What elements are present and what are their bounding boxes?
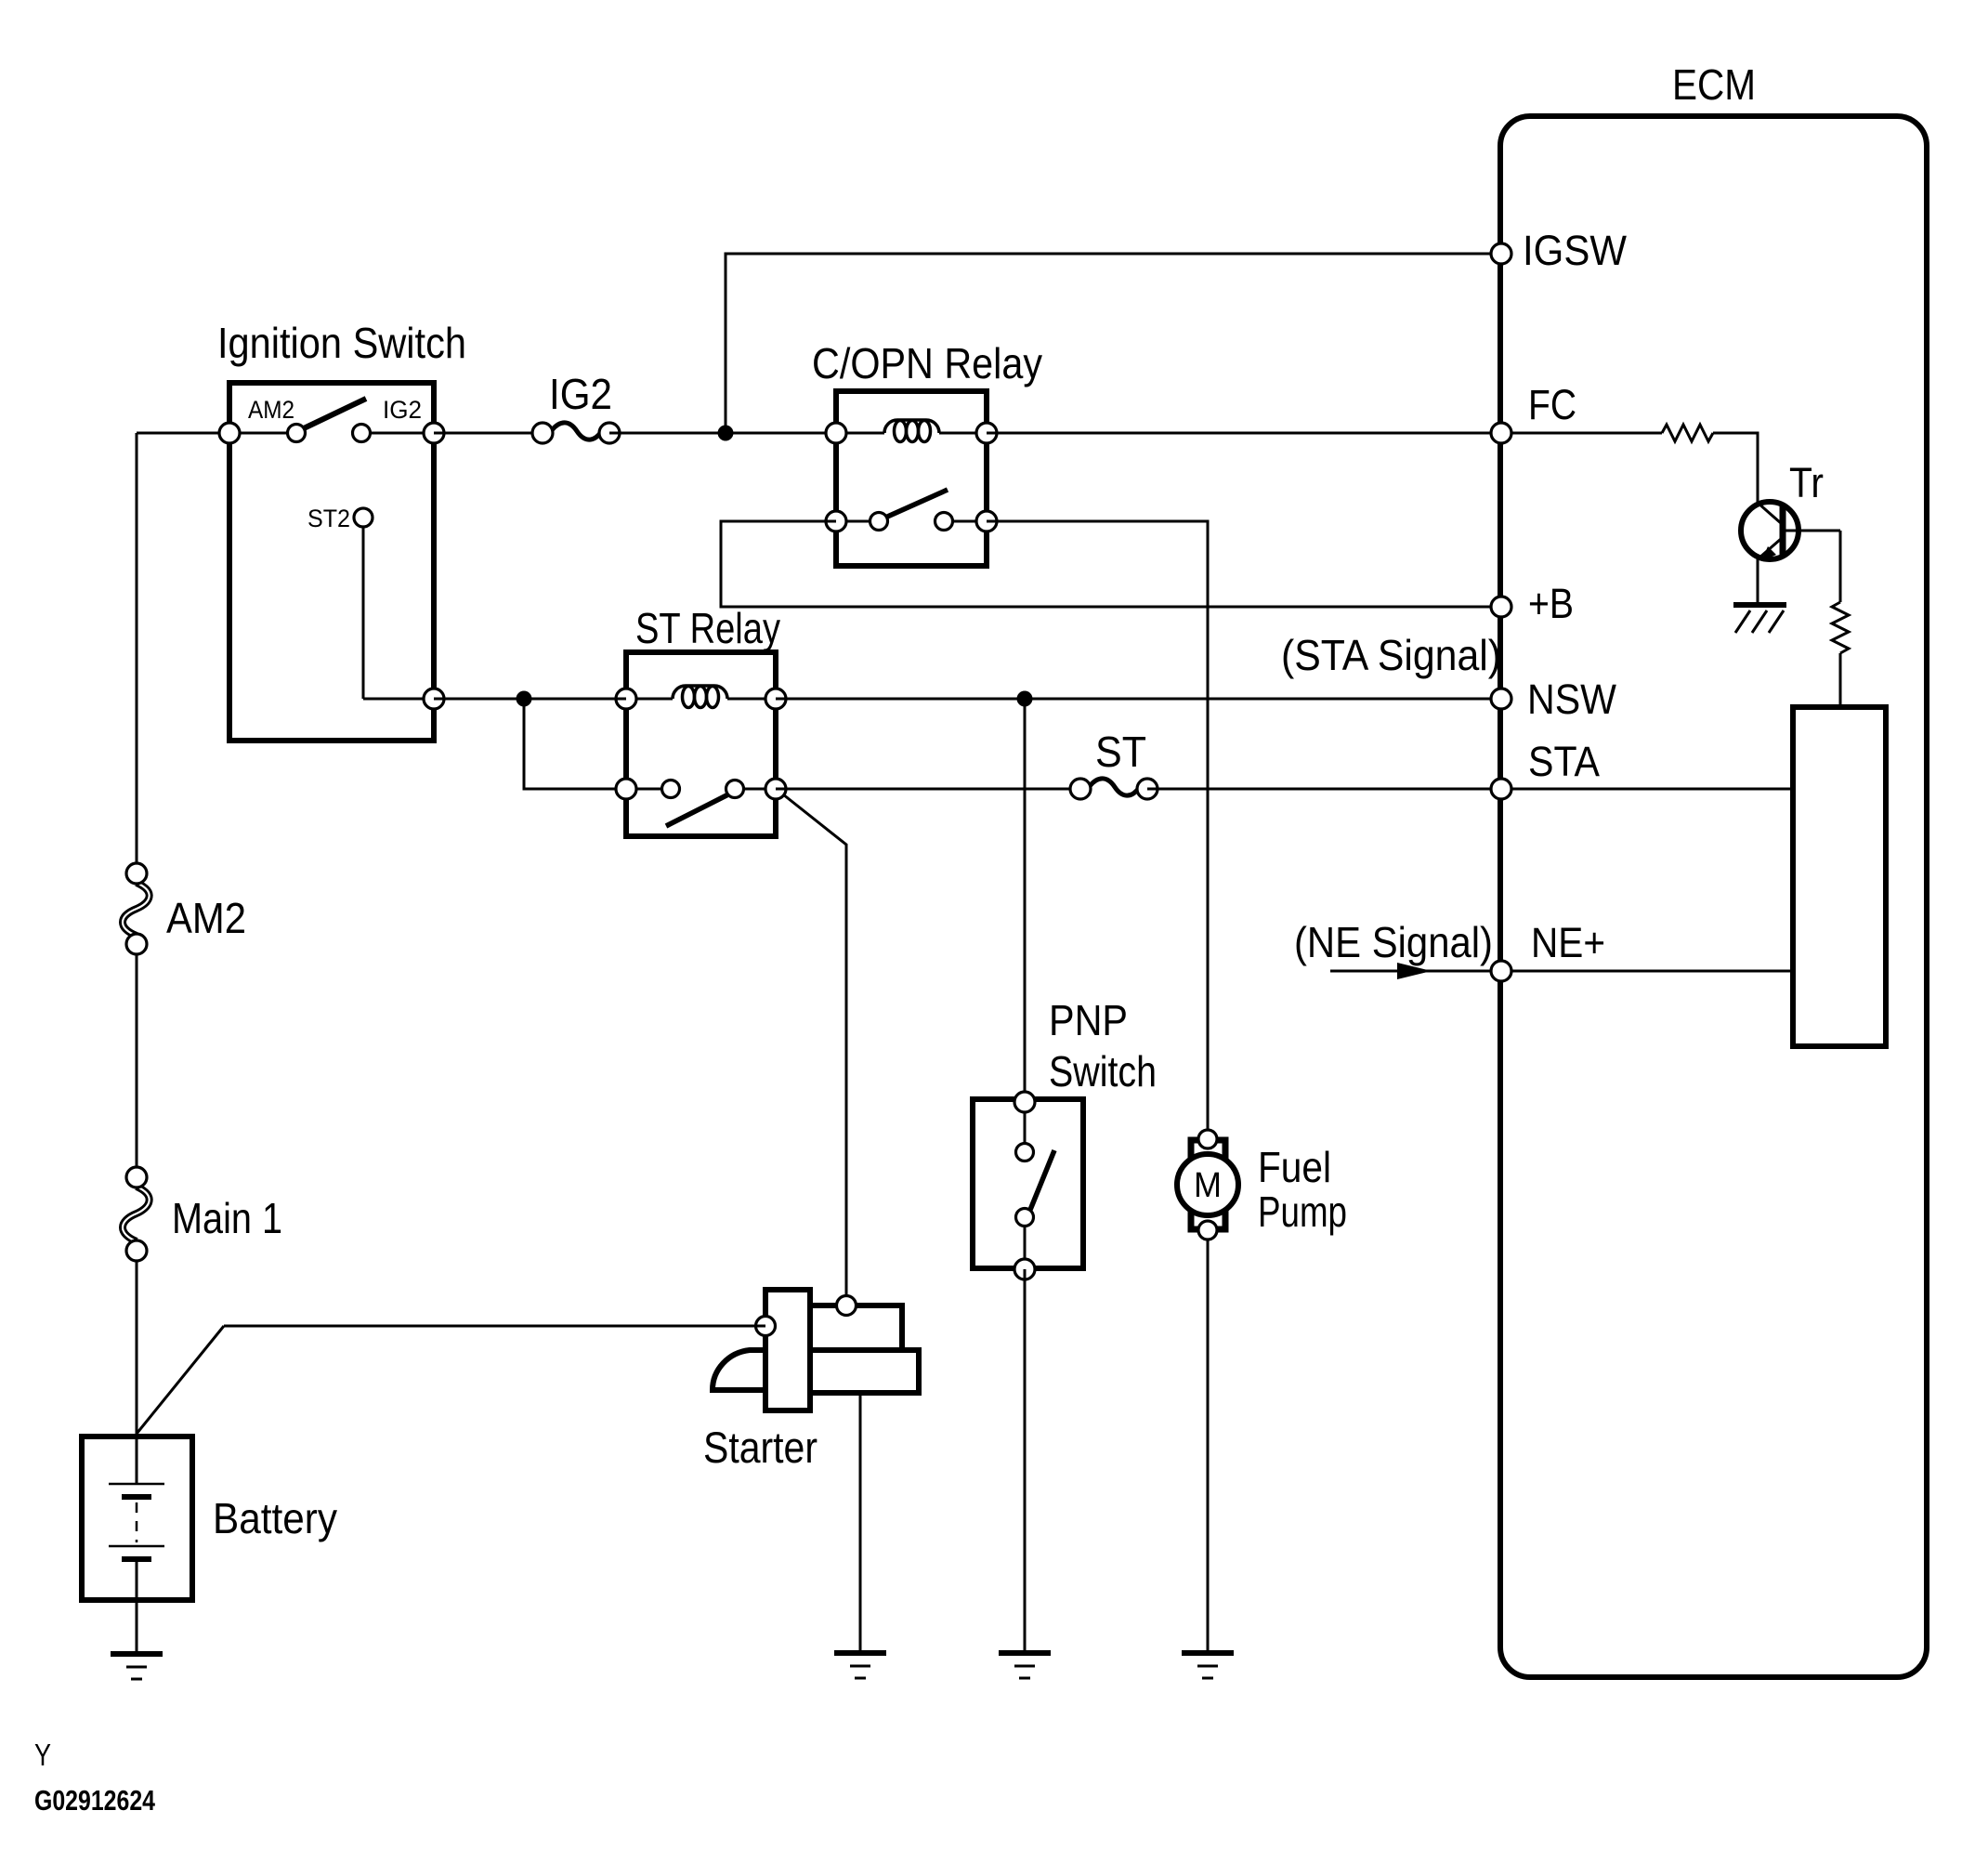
- switch blade ST relay: [666, 794, 730, 826]
- ECM block U1: [1500, 116, 1927, 1677]
- svg-text:Starter: Starter: [703, 1423, 817, 1472]
- wire: C/OPN switch row inner: [836, 520, 879, 523]
- pin FC: [1491, 423, 1511, 443]
- resistor R (collector, vertical): [1832, 602, 1849, 653]
- wire: starter diagonal drop: [783, 794, 846, 1305]
- svg-text:Y: Y: [34, 1738, 51, 1772]
- ground (fuel pump): [1182, 1653, 1234, 1678]
- wire: contact to IG2 terminal: [361, 432, 434, 435]
- wire: PNP inner: [1024, 1102, 1027, 1152]
- svg-text:IGSW: IGSW: [1523, 227, 1627, 274]
- relay coil ST: [636, 698, 673, 701]
- terminal: PNP bottom: [1014, 1259, 1035, 1279]
- switch blade PNP: [1030, 1150, 1054, 1210]
- wire: left rail vertical upper: [136, 433, 138, 864]
- svg-text:ST Relay: ST Relay: [635, 604, 780, 652]
- contact: PNP lower: [1016, 1209, 1034, 1227]
- terminal: ignition left: [219, 423, 240, 443]
- pin +B: [1491, 597, 1511, 617]
- C/OPN Relay box: [836, 391, 987, 566]
- resistor R (FC line): [1501, 432, 1662, 435]
- wire: fuse to STA pin: [1147, 788, 1501, 791]
- svg-text:AM2: AM2: [248, 396, 294, 424]
- wire: battery to starter horizontal: [224, 1325, 765, 1328]
- wire: fuse to C/OPN relay: [609, 432, 836, 435]
- svg-text:Switch: Switch: [1049, 1047, 1157, 1095]
- arrowhead NE signal: [1397, 963, 1432, 979]
- wire: node drop to ST switch: [524, 699, 626, 789]
- wire: ST2 to right edge: [363, 698, 434, 701]
- contact: ST2: [354, 508, 373, 527]
- block: ECM inner module: [1793, 707, 1886, 1046]
- contact: AM2: [288, 425, 306, 442]
- battery BT1: [82, 1437, 192, 1600]
- svg-text:STA: STA: [1528, 738, 1600, 785]
- ground (PNP): [999, 1653, 1051, 1678]
- terminal: C/OPN switch left: [826, 511, 846, 531]
- wire: NSW line: [776, 698, 1501, 701]
- wire: left rail horizontal to ignition switch: [137, 432, 229, 435]
- svg-text:M: M: [1194, 1166, 1222, 1205]
- terminal: pump bottom: [1198, 1221, 1217, 1240]
- PNP Switch box: [973, 1099, 1083, 1268]
- contact: PNP upper: [1016, 1144, 1034, 1161]
- fuse ST: [1090, 779, 1139, 795]
- svg-text:Pump: Pump: [1258, 1187, 1347, 1236]
- wire: NE+ to module: [1501, 970, 1793, 973]
- svg-text:(STA Signal): (STA Signal): [1281, 631, 1501, 679]
- terminal: starter solenoid left: [756, 1317, 776, 1336]
- svg-text:Battery: Battery: [213, 1494, 337, 1542]
- ground (battery): [111, 1654, 163, 1679]
- wire: +B route: [721, 521, 1501, 607]
- Ignition Switch box: [229, 383, 434, 741]
- svg-text:Ignition Switch: Ignition Switch: [217, 319, 466, 367]
- svg-text:ST2: ST2: [307, 505, 350, 532]
- terminal: ST switch left: [616, 779, 636, 799]
- wire: battery diagonal: [137, 1326, 224, 1434]
- wire: collector down: [1839, 531, 1842, 602]
- terminal: pump top: [1198, 1130, 1217, 1148]
- pin STA: [1491, 779, 1511, 799]
- wire: STA line to fuse: [776, 788, 1080, 791]
- terminal: ignition right (IG2): [424, 423, 444, 443]
- svg-text:IG2: IG2: [549, 370, 612, 418]
- terminal: ignition lower right: [424, 689, 444, 709]
- wire: ST switch row inner: [626, 788, 671, 791]
- wire: NSW node to PNP switch: [1024, 699, 1027, 1102]
- wire: C/OPN to fuel pump drop: [987, 521, 1208, 1130]
- svg-text:C/OPN Relay: C/OPN Relay: [812, 339, 1042, 387]
- ground (transistor, hatched): [1733, 602, 1786, 608]
- wire: IGSW riser: [726, 254, 1501, 433]
- wire: C/OPN coil to FC pin: [987, 432, 1501, 435]
- pin NSW: [1491, 689, 1511, 709]
- wire: left rail mid: [136, 953, 138, 1168]
- switch blade C/OPN: [885, 490, 948, 518]
- contact: C/OPN inner right: [935, 513, 953, 531]
- ST Relay box: [626, 652, 776, 836]
- contact: ST inner left: [662, 781, 680, 798]
- wire: IG2 terminal to fuse: [434, 432, 543, 435]
- pin IGSW: [1491, 243, 1511, 264]
- svg-text:Fuel: Fuel: [1258, 1143, 1331, 1191]
- junction dot NSW node: [1017, 691, 1033, 707]
- svg-text:ECM: ECM: [1672, 60, 1756, 109]
- svg-text:Main 1: Main 1: [172, 1194, 282, 1242]
- starter M2: [765, 1290, 810, 1410]
- svg-text:NSW: NSW: [1527, 676, 1616, 723]
- pin NE+: [1491, 961, 1511, 981]
- terminal: ST coil left: [616, 689, 636, 709]
- terminal: PNP top: [1014, 1092, 1035, 1112]
- junction dot IG2 node: [718, 426, 734, 441]
- junction dot ST2 node: [517, 691, 532, 707]
- wire: AM2 terminal to contact: [229, 432, 296, 435]
- terminal: ST switch right: [765, 779, 786, 799]
- contact: C/OPN inner left: [870, 513, 888, 531]
- wire: emitter to ground: [1757, 558, 1759, 605]
- svg-text:NE+: NE+: [1531, 919, 1605, 966]
- svg-text:IG2: IG2: [383, 396, 422, 424]
- terminal: C/OPN coil left: [826, 423, 846, 443]
- svg-text:Tr: Tr: [1789, 459, 1824, 506]
- svg-text:FC: FC: [1528, 381, 1576, 428]
- terminal: ST coil right: [765, 689, 786, 709]
- wire: ST2 node to ST relay coil: [434, 698, 626, 701]
- contact: ST inner right: [726, 781, 744, 798]
- terminal: starter top: [837, 1296, 857, 1316]
- wire: ST2 down: [362, 527, 365, 699]
- wire: left rail to battery: [136, 1260, 138, 1484]
- wire: STA to module: [1501, 788, 1793, 791]
- wire: PNP to ground: [1024, 1269, 1027, 1653]
- terminal: C/OPN coil right: [976, 423, 997, 443]
- wire: battery to ground: [136, 1559, 138, 1654]
- terminal: C/OPN switch right: [976, 511, 997, 531]
- svg-text:PNP: PNP: [1049, 996, 1128, 1044]
- svg-text:(NE Signal): (NE Signal): [1294, 918, 1493, 966]
- fuel pump motor M1: [1191, 1140, 1225, 1161]
- svg-text:AM2: AM2: [166, 894, 246, 942]
- svg-text:G02912624: G02912624: [34, 1784, 156, 1817]
- switch blade (ignition AM2-IG2): [304, 399, 366, 428]
- contact: IG2 inner: [353, 425, 371, 442]
- wire: starter to ground: [859, 1393, 862, 1653]
- wire: NE arrow line: [1330, 970, 1501, 973]
- relay coil C/OPN: [846, 432, 884, 435]
- ground (starter): [834, 1653, 886, 1678]
- wire: pump to ground: [1207, 1240, 1210, 1653]
- svg-text:ST: ST: [1095, 728, 1146, 776]
- fuse IG2: [552, 423, 601, 439]
- svg-text:+B: +B: [1528, 580, 1574, 627]
